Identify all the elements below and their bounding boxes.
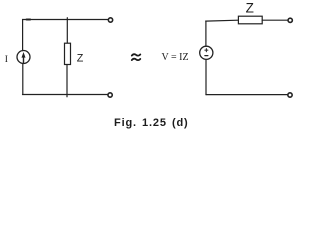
wire: ink blob on top wire near corner xyxy=(27,19,31,21)
voltage source minus sign xyxy=(205,55,208,57)
node: left circuit bottom-right open terminal xyxy=(108,93,112,97)
svg-text:Fig. 1.25 (d): Fig. 1.25 (d) xyxy=(114,117,189,129)
current source arrow xyxy=(22,52,26,63)
wire: right circuit top horizontal left segment xyxy=(206,19,239,22)
current source I (circle) xyxy=(17,51,30,64)
node: left circuit top-right open terminal xyxy=(108,18,112,22)
wire: right circuit bottom xyxy=(206,94,287,96)
svg-text:V = IZ: V = IZ xyxy=(162,52,189,63)
wire: left circuit middle branch upper xyxy=(66,18,68,44)
equivalence symbol xyxy=(132,54,141,60)
node: right circuit top-right open terminal xyxy=(288,18,292,22)
impedance Z (right, rectangle) xyxy=(238,16,262,24)
wire: left circuit middle branch lower xyxy=(66,65,68,97)
wire: right circuit left vertical lower xyxy=(205,59,207,94)
wire: left circuit top xyxy=(23,19,108,21)
wire: left circuit left vertical upper xyxy=(22,20,24,51)
voltage source plus sign xyxy=(205,49,208,52)
wire: left circuit left vertical lower xyxy=(22,64,24,95)
node: right circuit bottom-right open terminal xyxy=(288,93,292,97)
impedance Z (left, rectangle) xyxy=(65,43,71,64)
voltage source V (circle) xyxy=(200,46,213,59)
svg-text:I: I xyxy=(5,54,8,65)
wire: left circuit bottom xyxy=(23,94,108,96)
wire: right circuit left vertical upper xyxy=(205,21,207,46)
wire: right circuit top horizontal right segment xyxy=(262,19,287,21)
svg-text:Z: Z xyxy=(77,53,84,65)
svg-text:Z: Z xyxy=(246,0,254,15)
